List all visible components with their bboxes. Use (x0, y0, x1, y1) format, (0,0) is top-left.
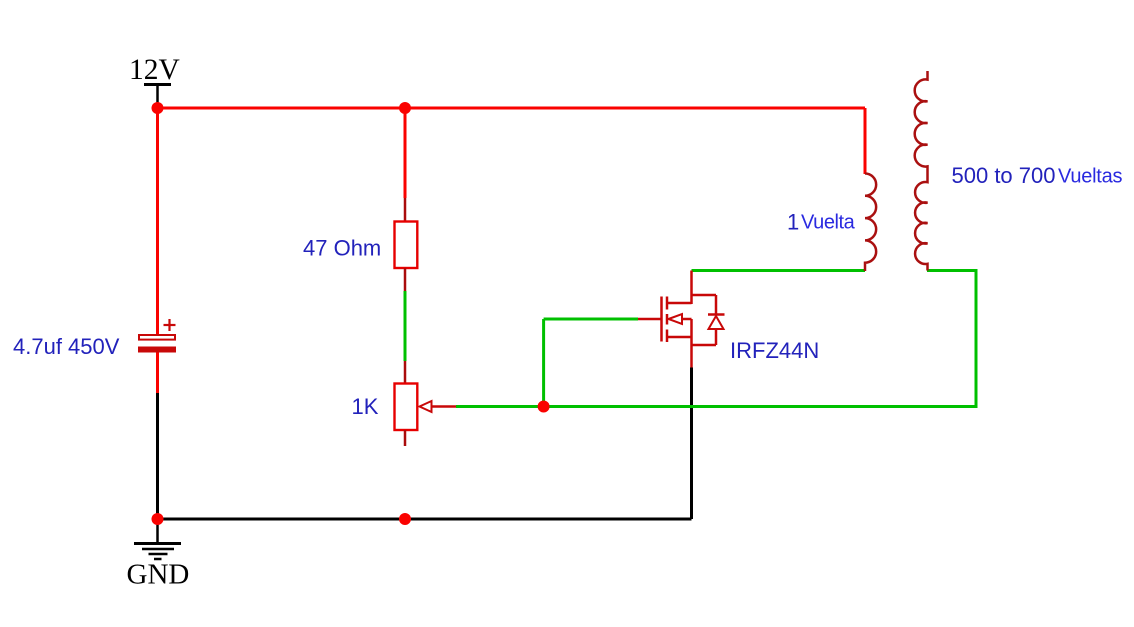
potentiometer RV1 1K (395, 361, 457, 446)
resistor R1 47 Ohm (395, 198, 418, 291)
wire: green feedback loop pot wiper to coil L2 (456, 271, 976, 407)
wire: red vertical rail to resistor R1 (404, 108, 407, 198)
inductor L2 secondary 500 to 700 Vueltas (915, 71, 928, 271)
wire: red vertical 12V to capacitor (156, 108, 159, 335)
label 1 Vuelta (787, 210, 856, 235)
junction dot: 12V terminal (152, 102, 164, 114)
wire: black MOSFET source to ground rail (690, 368, 693, 520)
svg-text:Vuelta: Vuelta (801, 212, 856, 234)
wire: +12V red top rail (158, 107, 866, 110)
svg-text:47 Ohm: 47 Ohm (303, 236, 381, 261)
power terminal 12V bar (144, 85, 171, 109)
svg-text:4.7uf 450V: 4.7uf 450V (13, 334, 120, 359)
wire: green gate net junction to MOSFET (544, 319, 638, 407)
svg-text:12V: 12V (129, 54, 180, 86)
svg-text:1K: 1K (352, 394, 379, 419)
wire: green MOSFET drain to coil L1 (692, 269, 866, 272)
svg-text:500 to 700: 500 to 700 (952, 163, 1056, 188)
junction dot: pot bottom on ground rail (399, 513, 411, 525)
junction dot: gate net (538, 401, 550, 413)
wire: red vertical rail to coil L1 (864, 108, 867, 174)
svg-text:IRFZ44N: IRFZ44N (730, 338, 819, 363)
junction dot: rail / resistor R1 (399, 102, 411, 114)
inductor L1 primary 1 Vuelta (865, 173, 876, 271)
label 500 to 700 Vueltas (952, 163, 1123, 188)
junction dot: ground left (152, 513, 164, 525)
body diode of Q1 (692, 295, 725, 345)
wire: black capacitor to ground rail (156, 393, 159, 519)
MOSFET Q1 IRFZ44N (638, 271, 716, 368)
wire: black bottom ground rail (158, 518, 692, 521)
svg-text:1: 1 (787, 210, 799, 235)
svg-text:Vueltas: Vueltas (1058, 166, 1122, 188)
capacitor C1 4.7uf 450V (138, 319, 176, 393)
svg-text:GND: GND (127, 559, 190, 591)
wire: green resistor to potentiometer (404, 291, 407, 361)
wire: black stub to ground symbol (156, 519, 159, 543)
ground symbol (134, 544, 181, 560)
